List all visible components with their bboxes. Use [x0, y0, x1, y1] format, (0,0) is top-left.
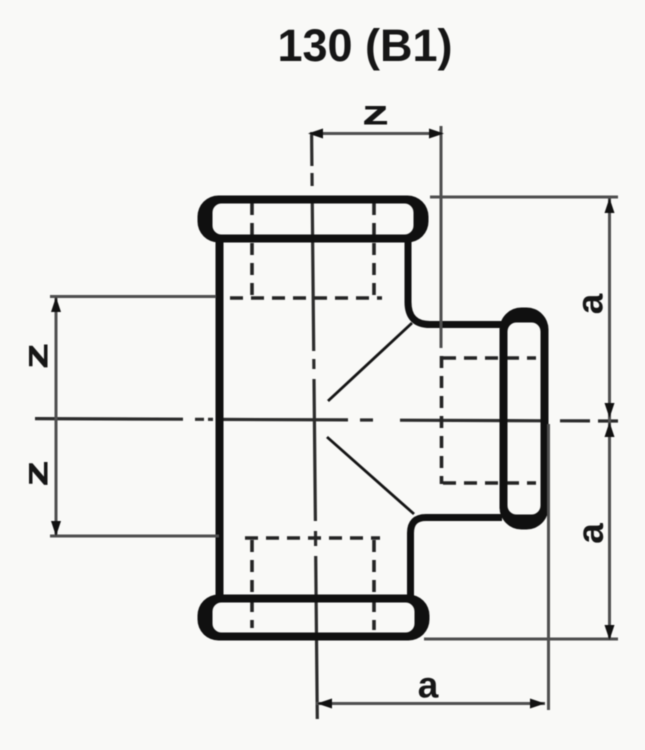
hidden thread lines: bottom socket left	[250, 540, 254, 628]
internal junction diagonal upper	[328, 323, 412, 401]
branch bottom edge with fillet	[411, 518, 503, 598]
extension line right bottom	[424, 638, 618, 641]
svg-text:z: z	[17, 460, 56, 487]
branch socket bead	[500, 308, 549, 530]
hidden thread lines: top socket right	[372, 203, 376, 297]
arrow z left top	[51, 297, 61, 312]
svg-text:z: z	[17, 343, 56, 370]
arrow a right top	[605, 198, 615, 213]
hidden thread lines: branch bottom	[443, 481, 536, 485]
extension line top z (right)	[440, 126, 443, 348]
body outline left edge	[216, 240, 224, 597]
svg-text:a: a	[570, 523, 611, 544]
svg-text:a: a	[418, 665, 439, 706]
dimension line a bottom	[316, 702, 545, 705]
internal junction diagonal lower	[327, 437, 414, 514]
extension line left upper	[50, 295, 216, 298]
body outline right side with branch	[408, 240, 502, 325]
svg-text:z: z	[362, 94, 389, 133]
arrow z top left	[308, 129, 323, 139]
extension line left lower	[50, 535, 219, 538]
hidden thread lines: top socket left	[250, 203, 254, 297]
arrow a right mid upper	[605, 403, 615, 418]
hidden thread lines: top socket bottom	[230, 296, 382, 300]
hidden thread lines: bottom socket top	[245, 536, 380, 540]
hidden thread lines: bottom socket right	[372, 540, 376, 630]
horizontal centerline	[35, 419, 618, 421]
hidden thread lines: branch left vertical	[440, 356, 444, 484]
hidden thread lines: branch top	[443, 356, 536, 360]
arrow a bottom left	[317, 699, 332, 709]
dimension line a right	[608, 198, 611, 640]
vertical centerline	[312, 133, 318, 719]
top socket bead	[198, 196, 429, 243]
arrow a bottom right	[530, 699, 545, 709]
svg-text:130 (B1): 130 (B1)	[277, 20, 452, 71]
extension line right top	[430, 196, 618, 199]
arrow a right mid lower	[605, 422, 615, 437]
bottom socket bead	[198, 595, 430, 641]
arrow z left bottom	[51, 521, 61, 536]
dimension line z top	[310, 132, 442, 135]
extension line bottom a (right of branch)	[547, 424, 550, 710]
arrow z top right	[429, 129, 444, 139]
dimension line z left	[55, 297, 58, 536]
arrow a right bottom	[605, 625, 615, 640]
svg-text:a: a	[570, 293, 611, 314]
